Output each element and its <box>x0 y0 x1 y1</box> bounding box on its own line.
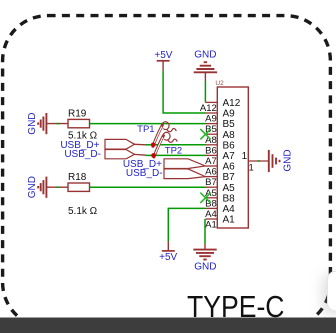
pin A6 <box>205 162 235 178</box>
pin B6 <box>205 140 235 156</box>
pin A5 <box>205 183 235 199</box>
wire +5V to pin A9 <box>163 71 205 113</box>
wire junction2 to pin A7 <box>154 154 206 156</box>
pin 1 shield <box>242 151 268 173</box>
wire pin A4 to +5V bottom <box>168 208 205 241</box>
svg-text:+5V: +5V <box>154 50 172 61</box>
wire flag2 to junction <box>135 154 154 155</box>
pin B7 <box>205 172 235 188</box>
net flag USB_D+ left <box>105 139 135 149</box>
svg-text:B7: B7 <box>223 172 236 183</box>
svg-text:5.1k Ω: 5.1k Ω <box>68 206 98 217</box>
net flag USB_D+ right <box>164 159 205 169</box>
pin A12 <box>200 98 241 114</box>
wire GND to pin A12 <box>204 81 206 102</box>
svg-text:B5: B5 <box>223 119 236 130</box>
svg-text:+5V: +5V <box>159 252 177 263</box>
svg-text:U2: U2 <box>215 80 224 87</box>
svg-text:A4: A4 <box>223 204 236 215</box>
ground GND bottom <box>193 244 216 272</box>
no-connect X on pin A8 <box>200 129 210 139</box>
pin B8 <box>205 193 235 209</box>
tooltip popup bottom right <box>328 272 336 312</box>
junction dot 1 <box>151 143 156 148</box>
svg-text:A5: A5 <box>223 183 236 194</box>
junction speck R19 <box>57 123 60 125</box>
wire pin A1 to GND bottom <box>204 219 206 244</box>
junction dot 2 <box>151 153 156 158</box>
ground GND top <box>194 49 217 81</box>
net flag USB_D- left <box>105 150 135 159</box>
svg-text:1: 1 <box>249 163 254 174</box>
svg-text:GND: GND <box>194 261 216 272</box>
ground GND left lower <box>27 176 68 198</box>
pin A1 <box>205 215 235 231</box>
pin A4 <box>205 204 235 220</box>
svg-text:GND: GND <box>283 149 294 171</box>
svg-text:GND: GND <box>27 112 38 134</box>
svg-text:A8: A8 <box>223 130 236 141</box>
wire flag1 to junction <box>135 143 154 146</box>
svg-text:A1: A1 <box>223 215 236 226</box>
wire R18 to pin A5 <box>90 186 206 188</box>
wire junction1 to pin B6 <box>153 144 205 146</box>
svg-text:TP1: TP1 <box>137 124 154 135</box>
junction speck R18 <box>57 186 60 188</box>
pin A8 <box>205 130 235 146</box>
svg-text:GND: GND <box>27 176 38 198</box>
svg-text:A6: A6 <box>223 162 236 173</box>
svg-text:A9: A9 <box>223 109 236 120</box>
resistor R19 <box>68 119 90 127</box>
svg-text:1: 1 <box>242 151 248 162</box>
pin B5 <box>205 119 235 135</box>
wire R19 to pin B5 <box>90 123 206 125</box>
svg-text:A7: A7 <box>223 151 236 162</box>
svg-text:A12: A12 <box>223 98 241 109</box>
junction speck pin1 <box>258 160 261 162</box>
net flag USB_D- right <box>164 169 205 179</box>
svg-text:B6: B6 <box>223 140 236 151</box>
power +5V top <box>154 50 172 71</box>
svg-text:A1: A1 <box>205 220 217 231</box>
test point TP2 <box>154 132 177 157</box>
pin A9 <box>205 109 235 125</box>
ground GND left upper <box>27 112 68 134</box>
resistor R18 <box>68 183 90 191</box>
svg-text:GND: GND <box>194 49 216 60</box>
svg-text:R19: R19 <box>68 108 87 119</box>
test point TP1 <box>153 122 176 147</box>
power +5V bottom <box>159 242 177 264</box>
svg-text:R18: R18 <box>68 172 87 183</box>
ground GND right <box>269 149 294 172</box>
svg-text:USB_D-: USB_D- <box>126 168 163 179</box>
pin A7 <box>205 151 235 167</box>
svg-text:B8: B8 <box>223 193 236 204</box>
no-connect X on pin B8 <box>200 193 210 203</box>
taskbar strip <box>0 318 336 333</box>
svg-text:TP2: TP2 <box>165 146 182 157</box>
connector U2 box <box>217 87 248 228</box>
svg-text:USB_D-: USB_D- <box>64 149 101 160</box>
